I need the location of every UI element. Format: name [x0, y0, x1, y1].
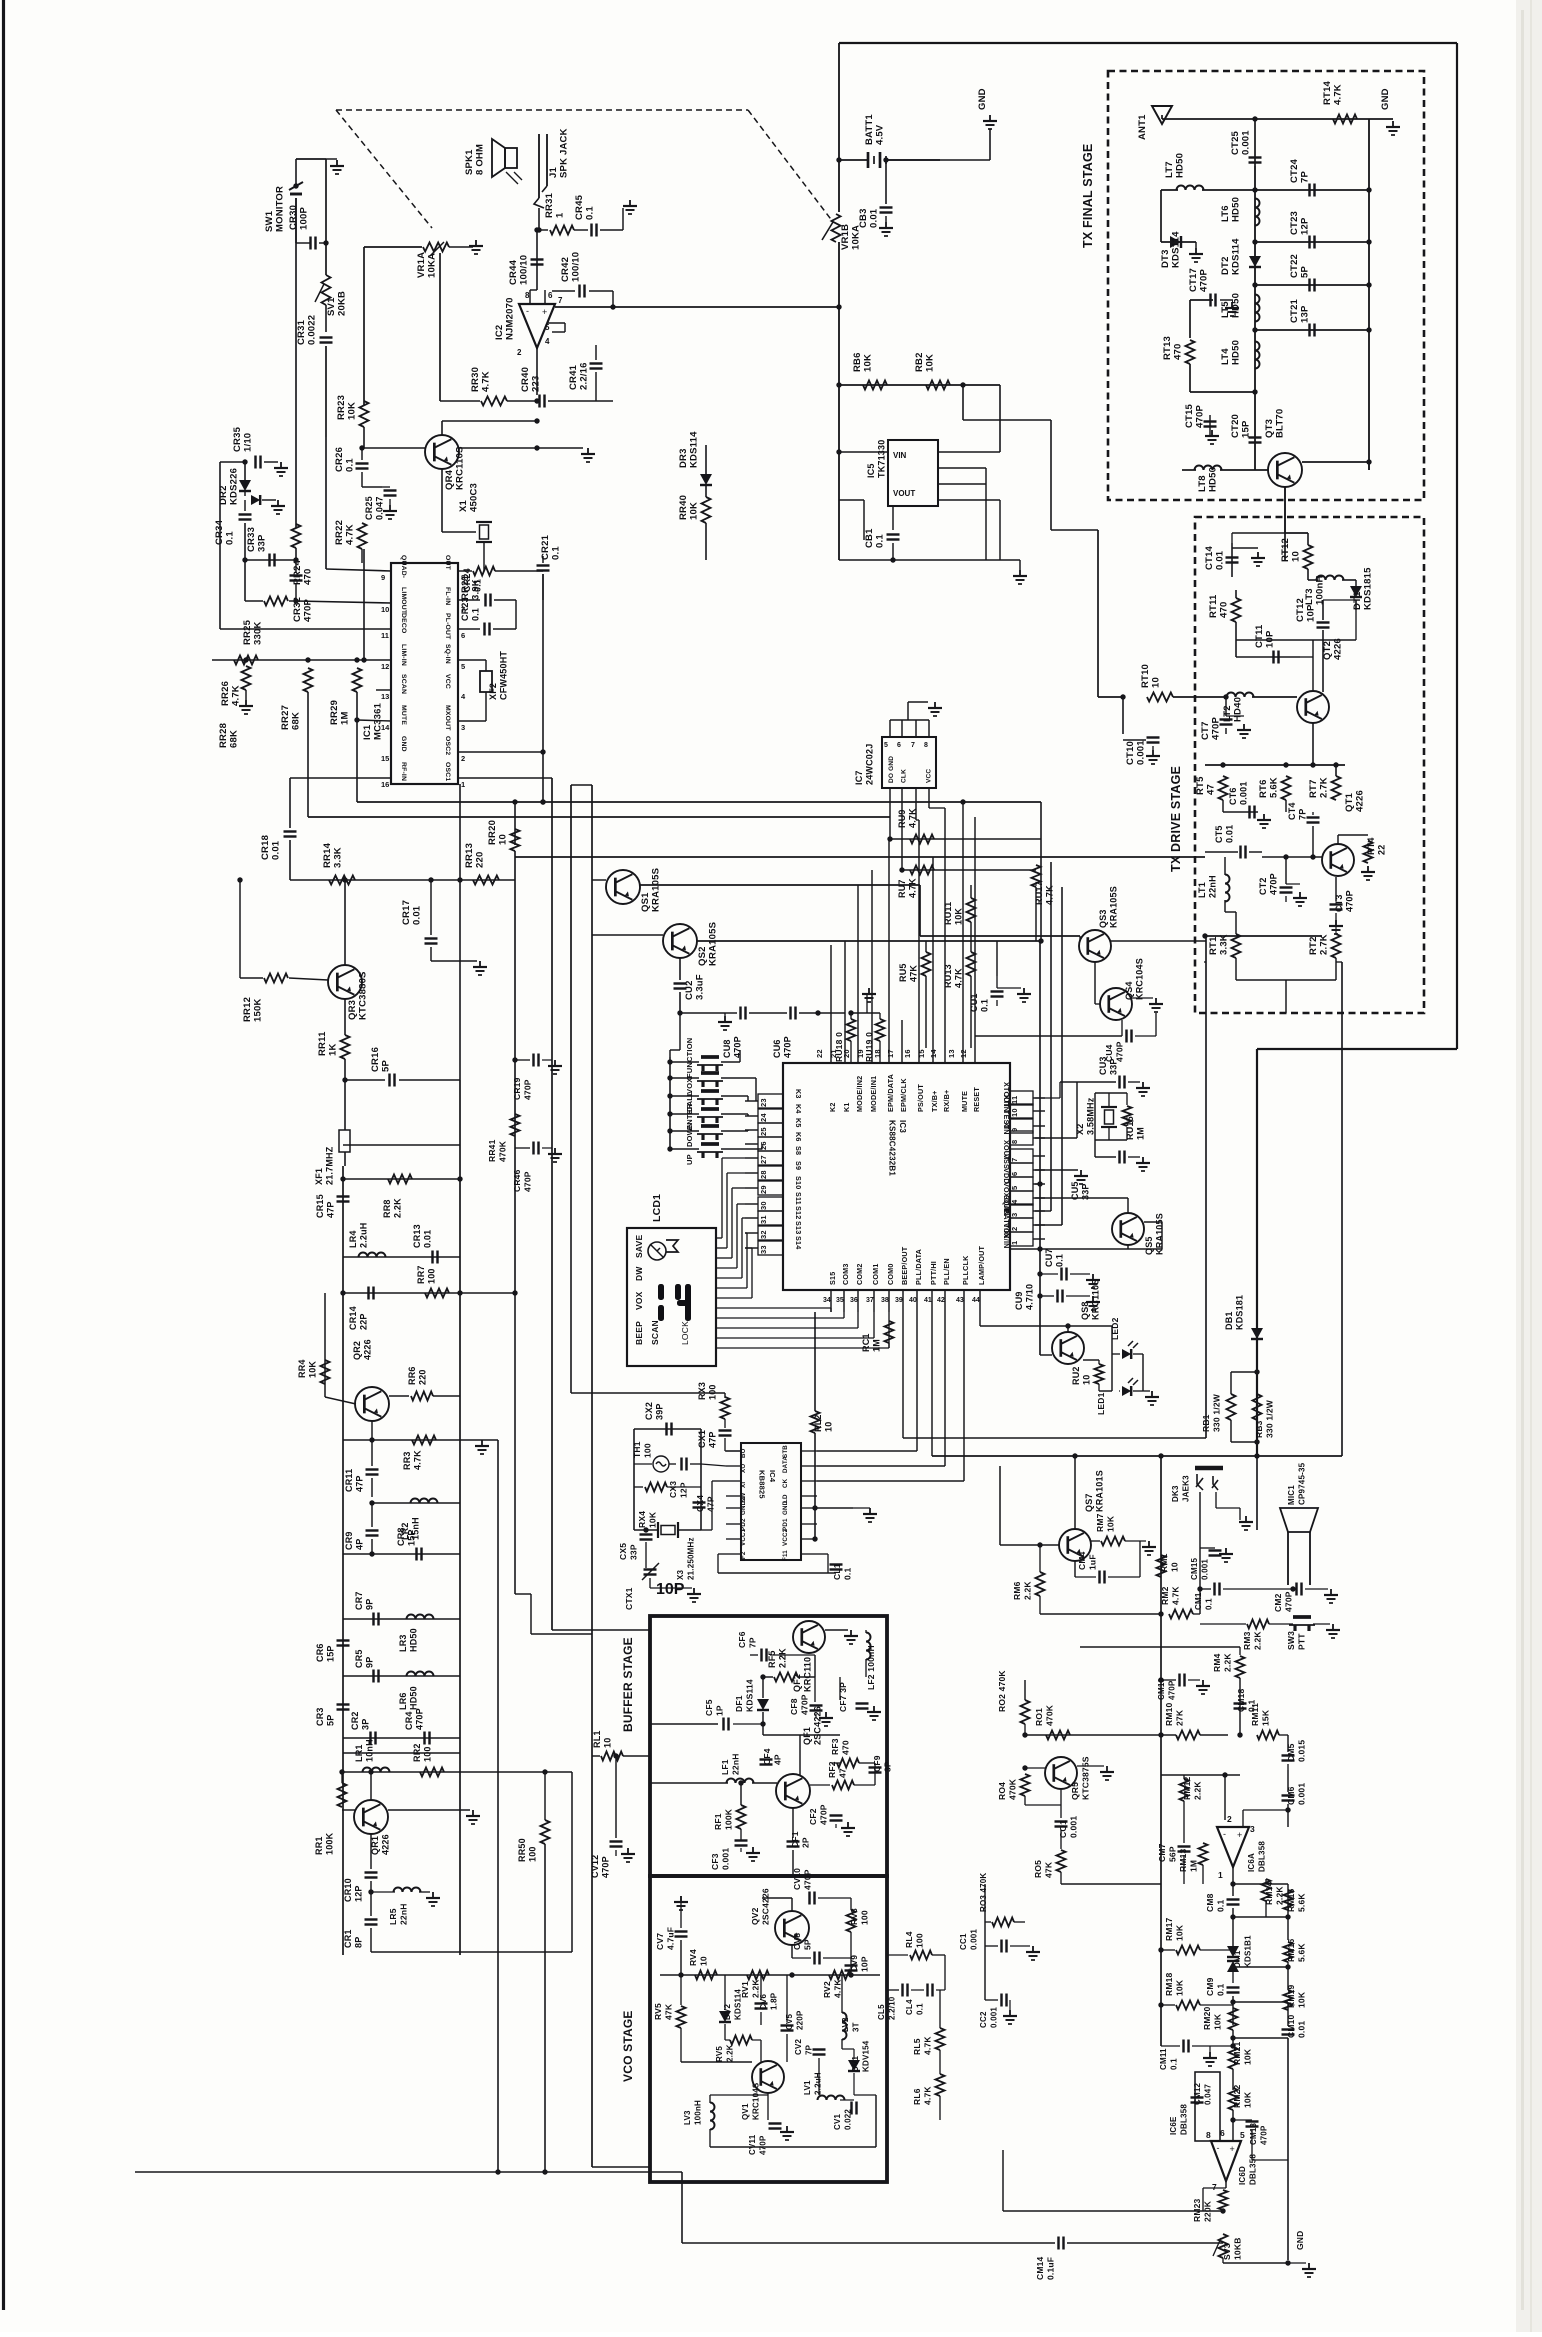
capacitor CR23 0.1 [458, 628, 480, 630]
svg-text:CT15: CT15 [1184, 403, 1195, 428]
svg-text:RR7: RR7 [416, 1265, 426, 1284]
rail x1206 [1205, 936, 1207, 1438]
wire row 1917 [1233, 1916, 1288, 1918]
keys rail [669, 1057, 671, 1148]
svg-text:15P: 15P [407, 1529, 417, 1546]
svg-text:13: 13 [947, 1049, 956, 1058]
svg-text:LV3: LV3 [683, 2110, 692, 2125]
wire QS3 emitter [1094, 962, 1096, 1004]
IC IC4 KB8825 box [741, 1443, 801, 1560]
svg-text:18: 18 [873, 1049, 882, 1058]
resistor RR1 100K [342, 1809, 355, 1811]
svg-text:3.3K: 3.3K [333, 847, 344, 868]
resistor RT6 5.6K [1282, 776, 1291, 800]
capacitor CT14 0.01 [1231, 543, 1233, 577]
capacitor CR9 4P [371, 1503, 373, 1527]
svg-text:RM3: RM3 [1242, 1631, 1252, 1650]
resistor RU17 4.7K [1032, 865, 1041, 887]
key wires to pins [739, 1050, 741, 1062]
svg-text:22nH: 22nH [1208, 875, 1218, 898]
svg-text:100: 100 [427, 1268, 437, 1284]
svg-text:450C3: 450C3 [469, 483, 480, 512]
resistor RR7 100 [425, 1289, 449, 1298]
wire x516 [515, 600, 517, 629]
svg-text:RU7: RU7 [897, 879, 907, 898]
resistor RB6 10K [839, 384, 1000, 386]
svg-text:CR31: CR31 [296, 319, 307, 345]
capacitor CF1 2P [792, 1808, 794, 1838]
svg-text:RO4: RO4 [997, 1782, 1007, 1800]
capacitor CR33 33P row [245, 559, 296, 561]
svg-text:RB3: RB3 [1254, 1420, 1264, 1438]
inductor LR2 15nH row [372, 1502, 460, 1504]
svg-text:0.001: 0.001 [1241, 130, 1252, 155]
svg-text:RU15: RU15 [1125, 1116, 1135, 1140]
inductor LR5 22nH [371, 1891, 395, 1893]
crystal X1 450C3 [441, 469, 443, 532]
wire QS5 emitter [1144, 1221, 1162, 1223]
svg-text:CB3: CB3 [858, 208, 869, 228]
capacitor CF4 4P [762, 1724, 764, 1760]
svg-text:K6: K6 [794, 1132, 803, 1142]
svg-text:VCC: VCC [444, 674, 451, 689]
wire QF1 collector [799, 1735, 801, 1775]
IC6E loop box [1195, 2072, 1220, 2141]
crystal XF1 21.7MHZ [339, 1130, 350, 1152]
svg-text:10P: 10P [1265, 630, 1276, 648]
svg-text:RT14: RT14 [1322, 80, 1333, 105]
svg-text:S14: S14 [794, 1236, 803, 1249]
capacitor CU2 3.3uF [679, 958, 681, 980]
resistor RM1 10 [1157, 1555, 1166, 1577]
svg-text:4.7K: 4.7K [481, 371, 492, 392]
svg-text:RR25: RR25 [242, 619, 253, 645]
svg-text:10: 10 [1291, 551, 1302, 562]
ground VSS [1035, 1169, 1078, 1171]
svg-text:470P: 470P [523, 1079, 533, 1100]
svg-text:RR40: RR40 [678, 495, 689, 520]
svg-text:CT12: CT12 [1295, 598, 1306, 622]
svg-text:DATA: DATA [782, 1456, 789, 1473]
svg-text:CR14: CR14 [348, 1306, 358, 1330]
svg-text:12: 12 [381, 662, 389, 671]
svg-text:CU1: CU1 [969, 993, 979, 1012]
wire x1025 down [1024, 1921, 1026, 1923]
svg-text:CM15: CM15 [1190, 1558, 1199, 1580]
svg-text:LED2: LED2 [1110, 1317, 1120, 1340]
svg-text:10K: 10K [347, 402, 358, 420]
svg-text:1/10: 1/10 [243, 433, 254, 452]
svg-text:CR13: CR13 [412, 1224, 422, 1248]
resistor RX4 10K [634, 1486, 643, 1488]
wire left rail SV1 [325, 159, 327, 275]
svg-text:SAVE: SAVE [634, 1235, 644, 1258]
svg-text:QS1: QS1 [640, 892, 651, 912]
svg-text:220: 220 [418, 1369, 428, 1385]
svg-text:470P: 470P [819, 1804, 829, 1825]
svg-text:5P: 5P [803, 1939, 813, 1950]
svg-text:5P: 5P [1300, 266, 1311, 278]
wire IC4 VCC1 rail [812, 1536, 817, 1541]
wire RR20 rail [514, 802, 516, 845]
svg-text:10K: 10K [954, 908, 964, 925]
wire QS2 base [592, 934, 663, 936]
svg-text:47P: 47P [355, 1475, 365, 1492]
vertical bus b [570, 785, 572, 1100]
schematic border top [839, 42, 1457, 44]
wire CR35 row [220, 461, 245, 463]
svg-text:K2: K2 [828, 1102, 837, 1112]
svg-text:CR11: CR11 [344, 1469, 354, 1492]
svg-text:COM3: COM3 [841, 1263, 850, 1285]
wire bus 1647 [1080, 1646, 1240, 1648]
svg-text:10K: 10K [925, 354, 936, 372]
svg-text:RT7: RT7 [1308, 779, 1319, 798]
wire LAMP row [979, 1312, 981, 1326]
resistor RR50 100 [544, 1772, 546, 1820]
svg-text:KDS1B1: KDS1B1 [1244, 1935, 1253, 1968]
vertical bus a [551, 778, 553, 1630]
svg-text:21.250MHz: 21.250MHz [687, 1537, 696, 1580]
svg-text:4.5V: 4.5V [875, 124, 886, 145]
svg-text:2SC4226: 2SC4226 [761, 1888, 771, 1925]
svg-text:XF2: XF2 [488, 683, 498, 700]
resistor RR41 470K [511, 1114, 520, 1136]
svg-text:RR31: RR31 [544, 192, 555, 218]
svg-text:8: 8 [525, 291, 530, 300]
svg-text:RM17: RM17 [1164, 1917, 1174, 1941]
svg-text:0.001: 0.001 [1239, 781, 1249, 805]
svg-text:CU8: CU8 [722, 1039, 732, 1058]
resistor RO1 470K [1046, 1731, 1070, 1740]
svg-text:PLLCLK: PLLCLK [961, 1255, 970, 1285]
VCO bias row [660, 1974, 880, 1976]
svg-text:CR5: CR5 [354, 1649, 364, 1668]
diode DF1 KDS114 [762, 1677, 764, 1698]
svg-text:RL2: RL2 [813, 1414, 823, 1432]
svg-text:MIC1: MIC1 [1287, 1485, 1296, 1505]
svg-text:RO5: RO5 [1033, 1860, 1043, 1878]
svg-text:0.001: 0.001 [970, 1929, 979, 1950]
svg-text:PTT: PTT [1297, 1633, 1307, 1650]
svg-text:10K: 10K [1243, 2048, 1253, 2065]
wire QT2 emitter [1312, 723, 1314, 765]
svg-text:RR29: RR29 [329, 700, 340, 725]
resistor RR3 4.7K [412, 1436, 436, 1445]
svg-text:DF1: DF1 [734, 1695, 744, 1712]
svg-text:LF2 100nH: LF2 100nH [866, 1645, 876, 1690]
inductor LR1 10nH row [343, 1771, 572, 1773]
svg-text:RM6: RM6 [1012, 1581, 1022, 1600]
svg-text:1M: 1M [1189, 1860, 1199, 1872]
capacitor CR2 3P row [343, 1737, 460, 1739]
svg-text:VCC1: VCC1 [740, 1528, 747, 1546]
svg-text:CT7: CT7 [1200, 721, 1211, 740]
capacitor CU7 0.1 with ground [1040, 1273, 1058, 1275]
svg-text:CU2: CU2 [684, 980, 695, 1000]
transistor QT2 4226 [1297, 691, 1329, 723]
svg-text:3.58MHz: 3.58MHz [1086, 1097, 1096, 1135]
resistor RM2 4.7K [1040, 1613, 1161, 1615]
resistor RM17 10K [1161, 1949, 1175, 1951]
svg-text:RL5: RL5 [912, 2038, 922, 2055]
svg-text:470P: 470P [803, 1869, 813, 1890]
wire BEEP bus [902, 1312, 904, 1438]
svg-text:RM20: RM20 [1202, 2006, 1212, 2030]
svg-text:DR3: DR3 [678, 448, 689, 468]
svg-text:HD40: HD40 [1233, 697, 1244, 722]
wire QR2 base [325, 1397, 356, 1404]
resistor RM11 15K [1252, 1734, 1256, 1736]
svg-text:24WC02J: 24WC02J [865, 744, 875, 785]
svg-text:3: 3 [461, 723, 465, 732]
svg-text:5: 5 [461, 662, 465, 671]
svg-text:3P: 3P [361, 1719, 371, 1730]
svg-text:17: 17 [886, 1049, 895, 1058]
resistor RX3 100 [724, 1393, 726, 1398]
resistor RV2 4.7K [829, 1971, 851, 1980]
capacitor CT21 13P [1255, 329, 1369, 331]
svg-text:QS4: QS4 [1124, 981, 1134, 1000]
wire RO5 to IC6A [1061, 1883, 1161, 1885]
svg-text:6: 6 [897, 742, 901, 749]
svg-text:1: 1 [1218, 1870, 1223, 1880]
svg-text:5.6K: 5.6K [1269, 777, 1280, 798]
capacitor CM8 0.1 [1232, 1884, 1234, 1896]
IC3 bottom pins [830, 1290, 832, 1312]
svg-text:470P: 470P [1260, 2125, 1269, 2145]
wire SV1 rail to IC1 pin9 [325, 437, 327, 569]
wire QR1 collector [370, 1772, 372, 1800]
svg-text:KRA105S: KRA105S [1109, 886, 1119, 928]
svg-text:2P: 2P [801, 1837, 811, 1848]
svg-text:470P: 470P [759, 2135, 768, 2155]
svg-text:IC6E: IC6E [1169, 2116, 1178, 2135]
svg-text:CR9: CR9 [344, 1531, 354, 1550]
svg-text:2.2K: 2.2K [726, 2044, 735, 2062]
svg-text:KRC104S: KRC104S [1135, 958, 1145, 1000]
svg-text:24: 24 [759, 1113, 768, 1122]
svg-text:COM1: COM1 [871, 1263, 880, 1285]
svg-text:K1: K1 [842, 1102, 851, 1112]
svg-text:RL6: RL6 [912, 2088, 922, 2105]
svg-text:29: 29 [759, 1185, 768, 1194]
resistor RF1 100K [740, 1783, 742, 1805]
capacitor CR31 0.0022 [325, 305, 327, 332]
capacitor CV8 5P [791, 1945, 793, 1958]
resistor RM18 10K [1161, 2004, 1175, 2006]
svg-text:0.1: 0.1 [1170, 2058, 1179, 2070]
capacitor CT23 12P [1255, 241, 1369, 243]
svg-text:470P: 470P [1195, 405, 1206, 428]
svg-text:4.7K: 4.7K [923, 2086, 933, 2105]
wire IC2 output down [536, 348, 538, 395]
scan texture right band [1516, 0, 1542, 2332]
svg-text:56P: 56P [1168, 1846, 1178, 1862]
svg-text:KDS1815: KDS1815 [1363, 567, 1374, 610]
svg-text:ANT1: ANT1 [1137, 114, 1148, 140]
transistor QR5 KTC3875S [1045, 1757, 1077, 1789]
svg-text:FUNCTION: FUNCTION [685, 1038, 694, 1078]
svg-text:7: 7 [1212, 2182, 1217, 2192]
svg-text:LOCK: LOCK [680, 1321, 690, 1345]
inductor LT7 HD50 [1160, 190, 1162, 242]
wire pin16 RF-IN left [290, 777, 391, 779]
svg-text:2.2K: 2.2K [393, 1198, 403, 1218]
capacitor CX3 12P [680, 1458, 682, 1471]
svg-text:CV5: CV5 [785, 2013, 794, 2030]
capacitor CB1 0.1 [892, 506, 894, 530]
svg-text:SV3: SV3 [1222, 2243, 1232, 2260]
op-amp IC6A DBL358 [1217, 1827, 1249, 1867]
wire IC1-right rail down [459, 784, 461, 1080]
wire SV3 bottom [1222, 2258, 1224, 2263]
svg-text:CM6: CM6 [1286, 1786, 1296, 1805]
svg-text:RX/B+: RX/B+ [942, 1090, 951, 1112]
resistor RM13 1M [1202, 1840, 1204, 1842]
svg-text:CV2: CV2 [794, 2038, 803, 2055]
svg-text:CX3: CX3 [668, 1481, 678, 1498]
svg-text:CF2: CF2 [808, 1808, 818, 1825]
svg-text:470: 470 [841, 1740, 851, 1755]
resistor RU7 4.7K [902, 869, 1036, 871]
svg-text:+: + [1237, 1830, 1242, 1840]
svg-text:1.8P: 1.8P [770, 1992, 779, 2010]
wire row 1967 [1233, 1966, 1288, 1968]
LCD1 box [627, 1228, 716, 1366]
wire ladder right rail ext [571, 1772, 573, 1952]
resistor RR28 68K [242, 666, 251, 690]
svg-text:0.1: 0.1 [1216, 1900, 1226, 1912]
svg-text:RR11: RR11 [317, 1031, 328, 1056]
svg-text:GND: GND [400, 736, 407, 752]
svg-text:7P: 7P [1298, 809, 1308, 820]
capacitor CX1 47P [724, 1419, 726, 1428]
svg-text:6: 6 [548, 291, 553, 300]
svg-text:0.1: 0.1 [1216, 1984, 1226, 1996]
svg-text:14: 14 [929, 1049, 938, 1058]
svg-text:FL-IN: FL-IN [444, 587, 451, 605]
svg-text:13: 13 [381, 692, 389, 701]
resistor RO4 470K [1021, 1774, 1030, 1796]
scan edge line left [2, 0, 5, 2310]
svg-text:15: 15 [381, 754, 389, 763]
svg-text:RR13: RR13 [464, 843, 475, 868]
resistor RF5 2.2K [763, 1676, 773, 1678]
TX drive top links [1232, 532, 1308, 534]
svg-text:39: 39 [895, 1297, 903, 1304]
bus IC7 feed [357, 801, 1041, 803]
svg-text:2.2K: 2.2K [778, 1648, 788, 1668]
capacitor CM15 0.001 ground [1199, 1548, 1201, 1614]
svg-text:CR46: CR46 [512, 1169, 522, 1192]
svg-text:QR5: QR5 [1070, 1782, 1080, 1800]
svg-text:470P: 470P [1284, 1591, 1294, 1612]
svg-text:LF1: LF1 [720, 1759, 730, 1775]
svg-text:1M: 1M [872, 1339, 882, 1352]
svg-text:IC6A: IC6A [1247, 1853, 1256, 1872]
IC5 pins right [938, 451, 1000, 453]
svg-text:RR12: RR12 [242, 997, 253, 1022]
resistor RR21 3.9K wire [483, 542, 485, 571]
capacitor CT5 0.01 [1239, 846, 1241, 859]
resistor RR6 220 [389, 1395, 409, 1397]
svg-text:MODE/IN2: MODE/IN2 [855, 1076, 864, 1112]
svg-text:RV4: RV4 [688, 1949, 698, 1966]
svg-text:10P: 10P [860, 1956, 870, 1972]
svg-text:RR26: RR26 [220, 681, 231, 706]
svg-text:RC1: RC1 [861, 1333, 871, 1352]
svg-text:K4: K4 [794, 1104, 803, 1114]
capacitor CT20 15P [1249, 436, 1262, 438]
svg-text:SV1: SV1 [326, 297, 337, 316]
svg-text:LAMP/OUT: LAMP/OUT [977, 1245, 986, 1285]
svg-text:10K: 10K [1175, 1924, 1185, 1941]
svg-text:CF4: CF4 [762, 1748, 772, 1765]
wire QS3 bus into drive stage [1205, 935, 1322, 937]
svg-text:47K: 47K [1044, 1861, 1054, 1878]
resistor RR13 220 [473, 876, 499, 885]
svg-text:CR4: CR4 [404, 1711, 414, 1730]
svg-text:RB6: RB6 [852, 352, 863, 372]
svg-text:0.1: 0.1 [916, 2003, 925, 2015]
capacitor CB3 0.01 [885, 160, 887, 204]
LED LED1 [1111, 1354, 1113, 1391]
wire IC2 top pins [529, 290, 531, 304]
capacitor CT7 470P [1225, 697, 1227, 716]
svg-text:100: 100 [708, 1384, 718, 1400]
svg-text:1uF: 1uF [1088, 1554, 1098, 1570]
capacitor CT24 7P [1255, 189, 1369, 191]
svg-text:MXOUT: MXOUT [444, 705, 451, 731]
diode DV1 KDV154 [848, 2060, 860, 2071]
wire QR2 emitter down [371, 1440, 373, 1466]
svg-text:DBL358: DBL358 [1258, 1841, 1267, 1872]
diode DT3 KDS114 to ground [1161, 241, 1196, 243]
op-amp IC6D DBL358 [1211, 2141, 1241, 2181]
svg-text:0.001: 0.001 [1136, 740, 1147, 765]
rail x1040 down [1040, 802, 1042, 941]
svg-text:CT21: CT21 [1289, 298, 1300, 323]
svg-text:TX FINAL STAGE: TX FINAL STAGE [1081, 144, 1095, 248]
capacitor CU8 470P [725, 1012, 737, 1014]
wire speaker hatch [506, 172, 522, 184]
inductor LF2 100nH [866, 1633, 871, 1660]
svg-text:2.2K: 2.2K [1253, 1631, 1263, 1650]
svg-text:X1: X1 [458, 499, 469, 512]
svg-text:223: 223 [531, 376, 542, 392]
crystal X3 21.250MHz [634, 1529, 658, 1531]
ground mic [1305, 1588, 1328, 1590]
wire VOXOUT to QS5 [1035, 1197, 1128, 1199]
svg-text:0.1: 0.1 [345, 458, 356, 472]
svg-text:470P: 470P [1345, 890, 1355, 912]
speaker SPK1 8 OHM [505, 148, 517, 168]
svg-text:KDS114: KDS114 [734, 1989, 743, 2020]
resistor RR4 10K [321, 1360, 330, 1384]
svg-text:CR44: CR44 [508, 259, 519, 285]
wire left rail TX final [1254, 166, 1256, 470]
pot VR1B 10KA [832, 214, 841, 242]
IC3 top long wires [830, 945, 832, 1020]
svg-text:8: 8 [924, 742, 928, 749]
svg-text:LT8: LT8 [1197, 475, 1208, 492]
capacitor CR1 8P [365, 1918, 378, 1920]
crystal X2 3.58MHz [1095, 1092, 1127, 1094]
resistor RU5 47K [922, 952, 931, 976]
svg-text:20KB: 20KB [337, 291, 348, 316]
resistor RU18 0 [847, 1019, 856, 1041]
